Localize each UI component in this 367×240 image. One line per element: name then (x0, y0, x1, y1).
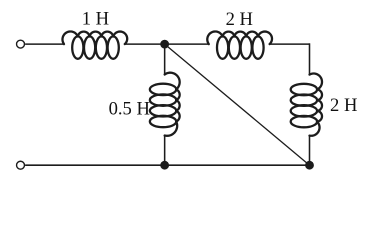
terminal T1 (top-left open circle) (17, 40, 25, 48)
inductor L4 2 H (vertical right) (310, 74, 323, 90)
wire: top-left terminal to L1 (25, 43, 64, 45)
wire: L4 to bottom-right node (309, 136, 311, 166)
wire: diagonal node A to bottom-right node (165, 44, 310, 165)
inductor L3 0.5 H (vertical middle) (165, 73, 180, 90)
node A (top middle junction dot) (160, 40, 169, 49)
svg-text:0.5 H: 0.5 H (109, 98, 150, 119)
wire: L2 to top-right corner (270, 43, 310, 45)
inductor L2 2 H (horizontal) (207, 31, 222, 44)
node B (bottom middle junction dot) (160, 161, 169, 170)
wire: right vertical, corner down to L4 (309, 43, 311, 74)
wire: bottom rail (25, 164, 309, 166)
inductor L1 1 H (horizontal) (62, 31, 77, 44)
svg-text:1 H: 1 H (82, 8, 109, 29)
svg-text:2 H: 2 H (330, 95, 357, 116)
wire: node A down to L3 (164, 44, 166, 74)
wire: L1 to node A (125, 43, 209, 45)
svg-text:2 H: 2 H (226, 9, 253, 30)
wire: L3 to bottom middle node (164, 136, 166, 166)
terminal T2 (bottom-left open circle) (17, 161, 25, 169)
node C (bottom right junction dot) (305, 161, 314, 170)
